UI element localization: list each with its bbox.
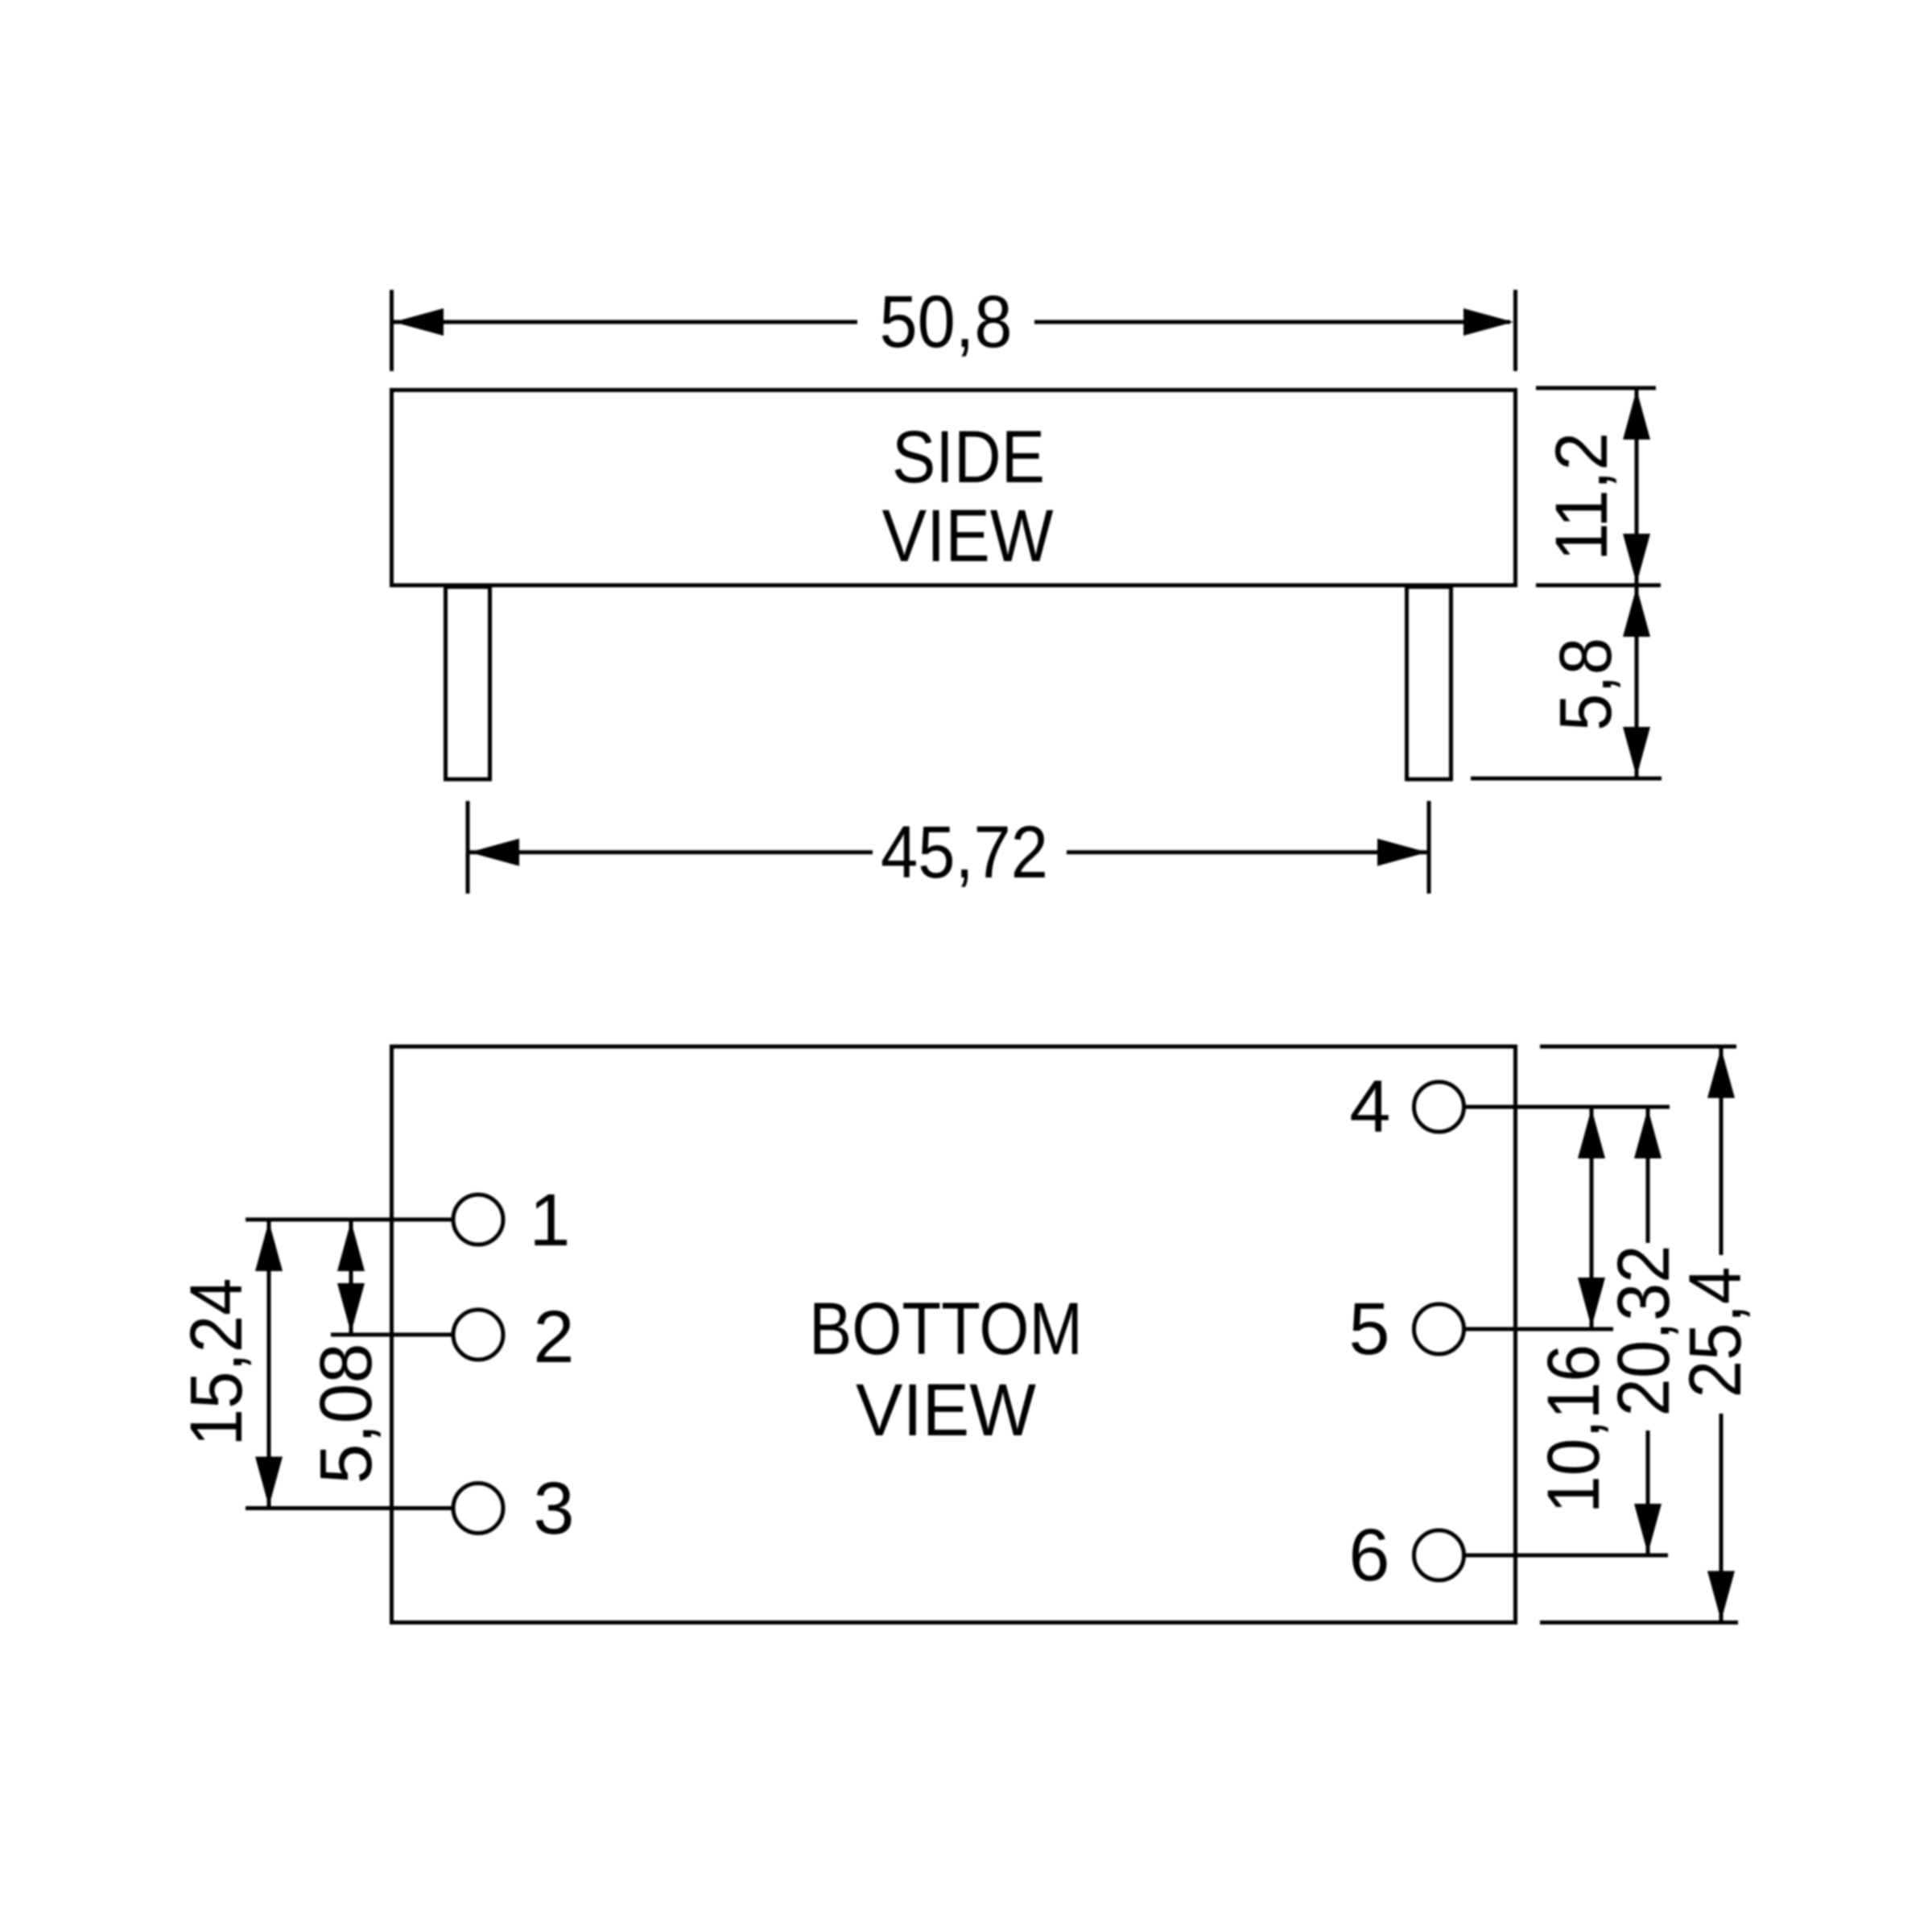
dimension 45,72 right extension tick bbox=[1427, 801, 1431, 894]
dimension 25,4 top arrowhead bbox=[1707, 1048, 1735, 1098]
pin 5 bbox=[1414, 1304, 1464, 1354]
dimension 45,72 right arrowhead bbox=[1377, 839, 1427, 866]
dimension 5,8 bottom arrowhead bbox=[1623, 727, 1650, 777]
pin 5 leader line bbox=[1465, 1327, 1613, 1331]
dimension 45,72 line right segment bbox=[1067, 850, 1429, 854]
pin 2 bbox=[453, 1310, 503, 1360]
left lead (side view) bbox=[446, 587, 490, 779]
svg-text:VIEW: VIEW bbox=[856, 1369, 1036, 1451]
side view body bbox=[392, 390, 1516, 586]
dimension 20,32 line lower segment bbox=[1646, 1430, 1650, 1555]
dimension 50,8 right arrowhead bbox=[1463, 308, 1513, 336]
svg-text:3: 3 bbox=[533, 1468, 574, 1550]
dimension 20,32 top arrowhead bbox=[1634, 1108, 1662, 1158]
dimension 45,72 line left segment bbox=[468, 850, 873, 854]
svg-text:5,8: 5,8 bbox=[1545, 638, 1627, 731]
svg-text:6: 6 bbox=[1348, 1514, 1389, 1596]
dimension 50,8 right extension tick bbox=[1513, 290, 1517, 371]
svg-text:15,24: 15,24 bbox=[175, 1278, 258, 1447]
dimension 5,08 bottom arrowhead bbox=[337, 1283, 365, 1333]
svg-text:4: 4 bbox=[1349, 1066, 1390, 1148]
pin 4 bbox=[1414, 1082, 1464, 1132]
dimension 5,8 line bbox=[1635, 585, 1639, 778]
dimension 10,16 line bbox=[1590, 1107, 1594, 1329]
pin 4 leader line bbox=[1465, 1105, 1670, 1109]
dimension 15,24 bottom arrowhead bbox=[255, 1457, 283, 1507]
bottom view body bbox=[392, 1046, 1516, 1623]
extension line top right (body top) bbox=[1536, 386, 1656, 390]
svg-text:11,2: 11,2 bbox=[1541, 432, 1623, 561]
pin 1 bbox=[453, 1195, 503, 1245]
dimension 10,16 bottom arrowhead bbox=[1578, 1278, 1605, 1327]
extension line bottom right (lead bottom) bbox=[1471, 777, 1662, 781]
svg-text:2: 2 bbox=[533, 1296, 574, 1378]
extension line bottom view top bbox=[1540, 1045, 1736, 1049]
pin 3 bbox=[453, 1484, 503, 1534]
dimension 20,32 bottom arrowhead bbox=[1634, 1504, 1662, 1554]
dimension 20,32 line upper segment bbox=[1646, 1107, 1650, 1243]
dimension 45,72 left arrowhead bbox=[469, 839, 519, 866]
dimension 50,8 left arrowhead bbox=[394, 308, 444, 336]
dimension 5,8 top arrowhead bbox=[1623, 587, 1650, 637]
dimension 50,8 left extension tick bbox=[390, 290, 394, 371]
extension line bottom view bottom bbox=[1540, 1620, 1738, 1624]
svg-text:1: 1 bbox=[529, 1179, 570, 1261]
right lead (side view) bbox=[1407, 587, 1451, 779]
dimension 5,08 top arrowhead bbox=[337, 1221, 365, 1271]
svg-text:SIDE: SIDE bbox=[892, 416, 1045, 498]
dimension 11,2 bottom arrowhead bbox=[1623, 534, 1650, 584]
dimension 25,4 line lower segment bbox=[1719, 1414, 1724, 1623]
dimension 25,4 line upper segment bbox=[1719, 1046, 1724, 1255]
pin 3 leader line bbox=[246, 1506, 452, 1510]
svg-text:5: 5 bbox=[1348, 1288, 1389, 1370]
svg-text:20,32: 20,32 bbox=[1603, 1245, 1685, 1417]
svg-text:50,8: 50,8 bbox=[880, 281, 1013, 363]
svg-text:5,08: 5,08 bbox=[305, 1344, 387, 1484]
dimension 15,24 top arrowhead bbox=[255, 1221, 283, 1271]
pin 6 bbox=[1414, 1530, 1464, 1580]
dimension 10,16 top arrowhead bbox=[1578, 1108, 1605, 1158]
dimension 5,08 line bbox=[349, 1220, 353, 1335]
pin 2 leader line bbox=[331, 1333, 452, 1337]
svg-text:45,72: 45,72 bbox=[881, 811, 1048, 894]
dimension 15,24 line bbox=[267, 1220, 271, 1509]
dimension 45,72 left extension tick bbox=[466, 801, 470, 894]
dimension 50,8 line right segment bbox=[1034, 320, 1510, 324]
svg-text:25,4: 25,4 bbox=[1674, 1267, 1757, 1398]
dimension 11,2 line bbox=[1635, 388, 1639, 585]
dimension 11,2 top arrowhead bbox=[1623, 390, 1650, 440]
pin 1 leader line bbox=[246, 1218, 452, 1222]
extension line mid right (body bottom) bbox=[1536, 584, 1661, 588]
svg-text:BOTTOM: BOTTOM bbox=[809, 1288, 1083, 1370]
dimension 25,4 bottom arrowhead bbox=[1707, 1571, 1735, 1621]
pin 6 leader line bbox=[1465, 1554, 1668, 1558]
svg-text:VIEW: VIEW bbox=[882, 495, 1054, 577]
dimension 50,8 line left segment bbox=[394, 320, 857, 324]
